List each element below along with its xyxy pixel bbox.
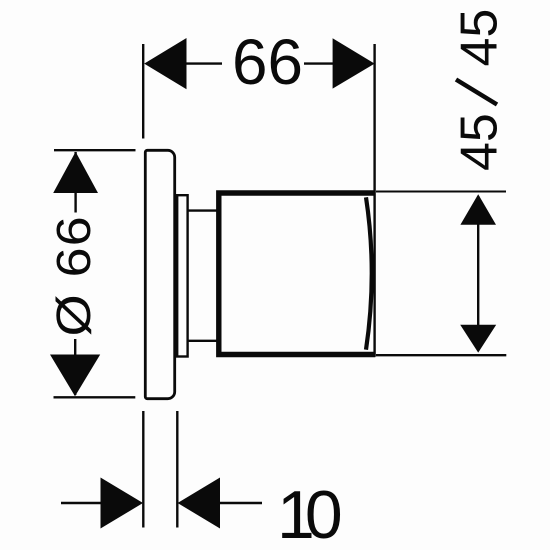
svg-text:Ø 66: Ø 66	[47, 215, 100, 336]
svg-text:45: 45	[451, 113, 509, 171]
svg-text:45: 45	[451, 9, 509, 67]
svg-text:10: 10	[277, 477, 341, 550]
svg-text:66: 66	[232, 26, 303, 98]
